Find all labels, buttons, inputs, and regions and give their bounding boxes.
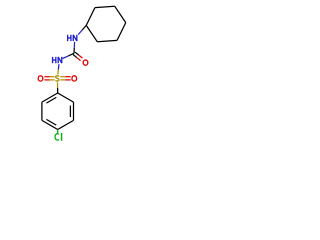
atom label O sulfonyl right bbox=[72, 76, 77, 81]
wire: ring edge V3-V4 bbox=[115, 6, 126, 22]
atom label S sulfonyl bbox=[56, 76, 59, 81]
chemical structure: 1-(4-chlorobenzenesulfonyl)-3-cyclohexylurea bbox=[0, 0, 150, 150]
wire: benzene edge B1-B2 bbox=[58, 93, 74, 102]
wire: benzene edge B3-B4 bbox=[58, 120, 74, 129]
bond N1-cyclohexyl: blue half near N bbox=[78, 30, 82, 35]
benzene inner double bond (right edge) bbox=[69, 106, 71, 117]
wire: ring edge V6-V1 bbox=[86, 25, 97, 41]
bond S-benzene: yellow half near S bbox=[57, 82, 59, 88]
wire: ring edge V1-V2 bbox=[86, 8, 95, 26]
benzene inner double bond (upper-left edge) bbox=[46, 97, 56, 103]
wire: ring edge V5-V6 bbox=[97, 40, 117, 41]
wire: benzene edge B2-B3 bbox=[73, 102, 75, 120]
bond N2-S: yellow half near S bbox=[57, 70, 60, 75]
bond N2-S: blue half near N bbox=[57, 64, 60, 69]
bond N1-cyclohexyl: black half near ring bbox=[82, 25, 86, 30]
carbonyl C=O double bond, black halves bbox=[73, 55, 77, 58]
bond benzene-Cl: green half near Cl bbox=[57, 130, 59, 134]
bond S-benzene: black half near ring bbox=[57, 88, 59, 93]
benzene ring bbox=[42, 93, 74, 130]
S=O right double bond: yellow halves bbox=[60, 76, 65, 78]
wire: benzene edge B4-B5 bbox=[42, 120, 58, 129]
S=O left double bond: red halves bbox=[44, 76, 49, 78]
atom label N1 with H (HN) bbox=[68, 35, 77, 41]
benzene inner double bond (lower-left edge) bbox=[46, 119, 56, 125]
wire: benzene edge B6-B1 bbox=[42, 93, 58, 102]
carbonyl C=O double bond, red halves bbox=[77, 58, 81, 61]
S=O left double bond: yellow halves bbox=[50, 76, 55, 78]
bond C-N2: blue half near N bbox=[63, 56, 69, 59]
S=O right double bond: red halves bbox=[65, 76, 70, 78]
atom label O carbonyl bbox=[83, 60, 88, 65]
atom label Cl chlorine bbox=[55, 133, 62, 141]
bond C-N2: black half near C bbox=[68, 53, 74, 56]
atom label O sulfonyl left bbox=[38, 76, 43, 81]
wire: ring edge V4-V5 bbox=[117, 23, 126, 41]
wire: ring edge V2-V3 bbox=[95, 6, 115, 7]
wire: benzene edge B5-B6 bbox=[41, 102, 43, 120]
atom label N2 with H (HN) bbox=[53, 57, 62, 63]
bond C-N1: black half near C bbox=[73, 48, 75, 53]
cyclohexyl ring bbox=[86, 6, 126, 42]
bond C-N1 (vertical): blue half near N bbox=[73, 42, 75, 48]
